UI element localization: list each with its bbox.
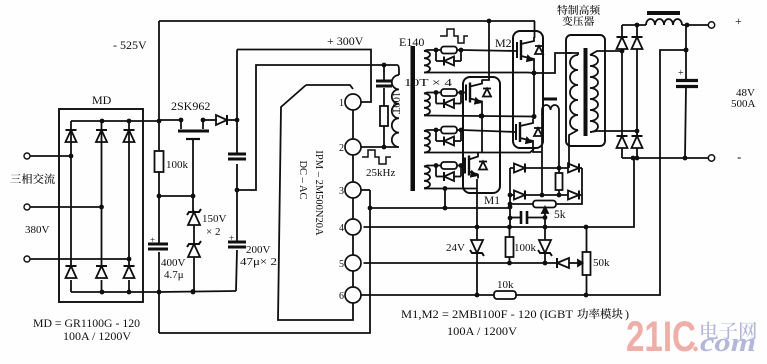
svg-text:380V: 380V — [25, 224, 50, 236]
diode snubber top-right — [568, 164, 579, 173]
node IPM pin 5 — [345, 255, 361, 271]
transistor IGBT M2 top — [517, 37, 543, 63]
diode out A bottom — [617, 136, 628, 148]
zener 150V x2 upper — [187, 209, 201, 225]
transformer E140 core — [411, 46, 416, 191]
wire +300V top link — [237, 50, 371, 103]
wire minus rail — [622, 156, 708, 161]
label -525V — [113, 38, 147, 52]
wire 5k wiper — [542, 207, 548, 217]
svg-text:M1: M1 — [484, 195, 500, 207]
svg-text:+: + — [735, 14, 742, 28]
wire phase A — [30, 154, 73, 159]
wire plus rail — [622, 23, 708, 28]
inductor E140 secondary 2 — [424, 94, 430, 116]
svg-text:+ 300V: + 300V — [327, 34, 364, 48]
watermark 21IC — [626, 313, 696, 361]
resistor snubber middle — [556, 168, 563, 195]
wire -525V rail — [157, 21, 162, 333]
wire HF secondary top — [590, 49, 624, 55]
wire HF primary top — [566, 53, 578, 55]
transistor IGBT M2 bottom — [516, 119, 542, 145]
label 24V — [446, 242, 465, 254]
svg-text:5: 5 — [339, 259, 344, 270]
label 380V — [25, 224, 50, 236]
wire gate2 to M1 top — [462, 92, 465, 94]
label 200V 47ux2 — [240, 244, 277, 268]
wire MD cathode bus — [71, 119, 159, 124]
wire top bus — [159, 19, 535, 24]
wire 2SK962 drain-source line — [159, 118, 239, 123]
wire MD leg1 — [70, 121, 72, 292]
wire M1 collector inside — [482, 77, 489, 80]
capacitor 100T branch — [376, 81, 392, 86]
wire zener link — [193, 225, 195, 244]
svg-text:100k: 100k — [166, 159, 189, 171]
zener 150V x2 lower — [187, 241, 201, 257]
node IPM pin 6 — [345, 287, 361, 303]
diode MD D1 top — [66, 130, 77, 142]
svg-text:M1,M2 = 2MBI100F - 120 (IGBT: M1,M2 = 2MBI100F - 120 (IGBT — [401, 307, 574, 321]
gate drive network 2 — [424, 89, 463, 108]
wire pin4 line — [364, 158, 635, 229]
wire gate3 to M2 bottom — [462, 130, 516, 132]
svg-text:100A / 1200V: 100A / 1200V — [447, 324, 517, 338]
node IPM pin 2 — [345, 139, 361, 155]
node three-phase input terminal A — [24, 153, 30, 159]
wire pin2 to E140 primary — [361, 145, 399, 150]
capacitor snubber C (237) — [228, 154, 246, 159]
resistor 10k — [494, 279, 516, 299]
svg-text:- 525V: - 525V — [113, 38, 147, 52]
zener clamp mid — [538, 240, 552, 256]
label MD 100A/1200V — [63, 329, 131, 343]
inductor E140 secondary 1 — [424, 51, 430, 73]
svg-text:47μ× 2: 47μ× 2 — [240, 256, 277, 268]
transformer HF core — [584, 48, 588, 136]
wire 2SK962 gate — [191, 150, 196, 294]
capacitor 400V 4.7u — [148, 235, 168, 249]
svg-text:-: - — [737, 149, 741, 164]
label 三相交流 — [10, 173, 54, 184]
svg-text:3: 3 — [339, 186, 344, 197]
label M1 — [484, 195, 500, 207]
inductor output choke — [646, 11, 682, 25]
svg-text:2SK962: 2SK962 — [171, 99, 210, 113]
wire M2 mid — [532, 63, 537, 119]
wire pin5 line — [364, 261, 579, 266]
wire M1 emitter down — [476, 179, 478, 295]
diode MD D3 bottom — [124, 266, 135, 278]
svg-text:+: + — [678, 68, 684, 79]
inductor HF secondary — [590, 55, 598, 132]
watermark com — [700, 328, 756, 357]
wire return3 — [424, 149, 534, 153]
wire snubber top row — [510, 166, 582, 171]
rectifier bridge MD box — [59, 109, 143, 302]
wire rect colA — [621, 25, 623, 158]
resistor 5k — [533, 201, 566, 222]
pulse waveform glyph pin2 — [362, 150, 395, 179]
diode MD D2 bottom — [96, 266, 107, 278]
svg-text:2: 2 — [339, 143, 344, 154]
wire M2 bottom emitter — [533, 145, 542, 152]
label E140 — [399, 35, 424, 49]
diode snubber bottom-right — [568, 191, 579, 200]
wire M2 collector feed — [534, 21, 536, 38]
wire M1 mid — [480, 105, 485, 152]
wire rect colB — [635, 23, 640, 161]
wire gate4 to M1 bottom — [462, 165, 464, 167]
transistor IGBT M1 top — [466, 80, 491, 106]
label 100T — [390, 92, 401, 115]
gate drive network 3 — [424, 127, 463, 146]
wire +300V rail — [235, 50, 240, 292]
svg-text:E140: E140 — [399, 35, 424, 49]
svg-text:+: + — [229, 233, 234, 243]
label +300V — [327, 34, 364, 48]
label 特制高频 — [557, 5, 600, 15]
label 100A/1200V (2) — [447, 324, 517, 338]
wire pin3 ref line — [370, 205, 512, 210]
wire return1 — [424, 71, 536, 76]
label M2 — [495, 36, 512, 50]
wire M1 collector feed — [488, 21, 490, 77]
transistor module M1 outline — [463, 77, 500, 193]
wire negative bus to caps — [159, 289, 236, 294]
resistor 100k (control) — [506, 228, 514, 263]
label M1,M2 = 2MBI100F-120 — [401, 307, 629, 321]
pulse waveform glyph top — [440, 29, 468, 43]
svg-text:.: . — [692, 327, 699, 358]
wire net4 tap down — [443, 189, 448, 211]
label 50k — [593, 257, 610, 269]
svg-text:6: 6 — [339, 291, 344, 302]
wire pin3 — [361, 189, 371, 191]
label 48V 500A — [731, 87, 756, 110]
svg-text:MD = GR1100G - 120: MD = GR1100G - 120 — [33, 316, 140, 330]
diode snubber bottom-left — [514, 191, 525, 200]
wire phase B — [30, 205, 104, 210]
diode pin5 pick — [557, 258, 569, 268]
wire DC-block link — [237, 63, 397, 190]
diode out B bottom — [632, 136, 643, 148]
transistor 2SK962 — [178, 120, 209, 150]
inductor E140 secondary 4 — [424, 167, 430, 189]
wire MD leg2 — [101, 121, 103, 292]
diode MD D1 bottom — [66, 266, 77, 278]
wire HF primary bottom — [569, 130, 578, 168]
diode out B top — [632, 37, 643, 49]
diode out A top — [617, 37, 628, 49]
inductor E140 primary — [392, 75, 399, 147]
wire choke right down — [558, 110, 560, 168]
svg-text:10T × 4: 10T × 4 — [404, 77, 453, 89]
label pin numbers — [339, 98, 344, 302]
svg-text:21IC: 21IC — [626, 313, 696, 361]
node output + terminal — [708, 22, 714, 28]
resistor 100k (rail) — [155, 151, 164, 172]
svg-text:100k: 100k — [514, 242, 537, 254]
label 100k (control) — [514, 242, 537, 254]
wire M2 mid to primary — [534, 53, 572, 73]
wire 100T branch — [383, 65, 385, 147]
inductor saturable choke — [542, 98, 559, 111]
inductor E140 secondary 3 — [424, 131, 430, 153]
label + — [735, 14, 742, 28]
wire MD anode bus — [71, 290, 159, 295]
svg-text:500A: 500A — [731, 98, 756, 110]
node IPM pin 3 — [345, 182, 361, 198]
inductor HF primary — [570, 55, 578, 130]
wire return2 — [424, 114, 536, 119]
op-amp IPM DC-AC module outline — [278, 85, 353, 320]
wire pin6 line — [361, 48, 689, 298]
wire HF secondary bottom — [590, 129, 639, 134]
label - — [737, 149, 741, 164]
svg-text:DC – AC: DC – AC — [297, 160, 308, 199]
svg-text:5k: 5k — [554, 209, 566, 221]
svg-text:25kHz: 25kHz — [366, 167, 395, 179]
diode MD D3 top — [124, 130, 135, 142]
label MD — [92, 93, 112, 107]
svg-text:10k: 10k — [497, 279, 514, 291]
wire zener drop — [544, 218, 546, 264]
label 400V 4.7u — [161, 257, 186, 281]
svg-text:100A / 1200V: 100A / 1200V — [63, 329, 131, 343]
wire zener to bus — [193, 257, 195, 292]
node IPM pin 4 — [345, 219, 361, 235]
wire snubber left — [508, 168, 513, 228]
wire phase C — [30, 257, 131, 262]
wire choke left down — [541, 110, 543, 195]
svg-text:200V: 200V — [246, 244, 271, 256]
label MD = GR1100G-120 — [33, 316, 140, 330]
resistor 100T branch — [380, 106, 388, 126]
wire snubber bottom row — [510, 193, 582, 198]
svg-text:IPM – 2M500N20A: IPM – 2M500N20A — [313, 150, 324, 236]
svg-text:4.7μ: 4.7μ — [164, 269, 184, 281]
svg-text:MD: MD — [92, 93, 112, 107]
wire gate jumper — [160, 195, 193, 197]
label 2SK962 — [171, 99, 210, 113]
label 100k (rail) — [166, 159, 189, 171]
wire gate1 to M2 top — [462, 50, 517, 51]
wire 5k left — [508, 202, 533, 207]
svg-text:× 2: × 2 — [206, 226, 220, 238]
label 150V x2 — [202, 213, 227, 238]
watermark dot — [692, 327, 699, 358]
wire MD leg3 — [128, 121, 130, 292]
svg-text:400V: 400V — [161, 257, 186, 269]
node three-phase input terminal C — [24, 256, 30, 262]
wire E140 primary entry — [397, 65, 399, 75]
svg-text:50k: 50k — [593, 257, 610, 269]
node three-phase input terminal B — [24, 204, 30, 210]
node output - terminal — [708, 155, 714, 161]
wire cap leads — [510, 215, 547, 220]
label 变压器 — [562, 16, 594, 26]
transistor module M2 outline — [513, 31, 543, 148]
potentiometer 50k — [578, 227, 591, 295]
watermark 电子网 — [701, 322, 756, 340]
capacitor output electrolytic — [676, 25, 698, 158]
diode MD D2 top — [96, 130, 107, 142]
svg-text:M2: M2 — [495, 36, 512, 50]
svg-text:150V: 150V — [202, 213, 227, 225]
transformer HF box — [566, 35, 605, 146]
diode chopper series — [216, 115, 227, 125]
svg-text:+: + — [150, 235, 155, 245]
diode snubber top-left — [514, 164, 525, 173]
gate drive network 4 — [424, 162, 463, 181]
wire bottom bus — [159, 190, 372, 333]
svg-text:24V: 24V — [446, 242, 465, 254]
wire snubber right edge — [556, 168, 582, 204]
svg-text:1: 1 — [339, 98, 344, 109]
transistor IGBT M1 bottom — [465, 153, 487, 179]
node IPM pin 1 — [345, 94, 361, 110]
label IPM-2M500N20A vertical — [313, 150, 324, 236]
zener 24V — [470, 240, 484, 256]
capacitor 200V 47ux2 — [228, 233, 246, 247]
capacitor snubber lower — [521, 211, 527, 224]
gate drive network 1 — [424, 47, 463, 66]
wire return4 — [424, 186, 477, 191]
svg-text:4: 4 — [339, 223, 344, 234]
label DC-AC vertical — [297, 160, 308, 199]
label 10Tx4 — [404, 77, 453, 89]
